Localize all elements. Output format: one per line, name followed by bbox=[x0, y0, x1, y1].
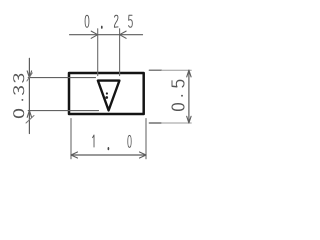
left dimension line bbox=[28, 58, 30, 133]
triangle center dot lower bbox=[105, 96, 108, 99]
right dimension bottom arrow bbox=[187, 116, 191, 123]
top dimension right arrow bbox=[120, 31, 127, 38]
top dimension text 0.25 bbox=[85, 15, 132, 29]
left dimension text 0.33 (rotated) bbox=[14, 75, 24, 118]
bottom dimension text 1.0 bbox=[93, 135, 132, 150]
bottom dimension right extension line bbox=[145, 119, 147, 159]
top dimension left arrow bbox=[91, 31, 98, 38]
bottom dimension left extension line bbox=[70, 119, 72, 159]
left dimension bottom arrow bbox=[27, 111, 31, 118]
right dimension upper extension line bbox=[149, 69, 161, 71]
left dimension top arrow bbox=[27, 71, 31, 78]
bottom dimension right arrow bbox=[140, 152, 147, 158]
top dimension right extension line bbox=[119, 29, 121, 76]
right dimension line bbox=[188, 70, 190, 123]
bottom dimension left arrow bbox=[71, 152, 78, 158]
pin-1 triangle marker bbox=[98, 81, 120, 111]
left dimension top tick bbox=[27, 73, 32, 81]
left dimension upper extension line bbox=[28, 77, 95, 79]
top dimension left extension line bbox=[97, 29, 99, 76]
package body rectangle bbox=[69, 73, 144, 114]
triangle center dot upper bbox=[106, 92, 108, 94]
right dimension top arrow bbox=[187, 70, 191, 77]
right dimension text 0.5 (rotated) bbox=[172, 80, 184, 110]
left dimension lower extension line bbox=[28, 110, 98, 112]
right dimension lower extension line bbox=[149, 122, 161, 124]
left dimension bottom tick bbox=[26, 116, 34, 124]
top dimension line bbox=[70, 34, 143, 36]
bottom dimension line bbox=[71, 154, 146, 156]
